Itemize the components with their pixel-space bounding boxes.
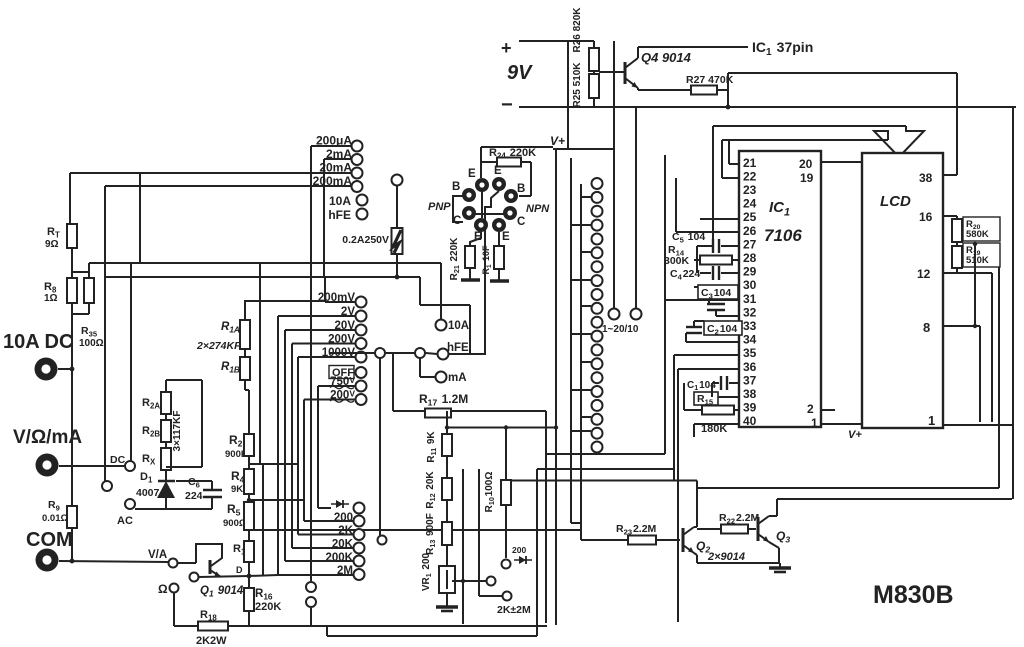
label R15 boxed bbox=[694, 392, 718, 405]
wire mesh x298 bbox=[297, 357, 299, 535]
socket pad B npn bbox=[504, 189, 518, 203]
wire V+ rail bbox=[553, 148, 614, 150]
wire pin25 bbox=[700, 218, 739, 220]
wire into LCD pin 38 bbox=[944, 174, 957, 176]
wire 2mA left bbox=[324, 158, 351, 160]
contact AC bbox=[125, 499, 135, 509]
wire 200K row bbox=[285, 560, 353, 562]
wire R4-R5 junction right bbox=[249, 499, 305, 501]
transistor Q1 9014 bbox=[210, 560, 221, 577]
resistor R21 bbox=[465, 246, 475, 268]
wire R8-R35 top join bbox=[72, 271, 89, 273]
svg-text:200K: 200K bbox=[326, 552, 354, 564]
svg-text:+: + bbox=[501, 38, 512, 58]
junction V+ column feed bbox=[554, 425, 558, 429]
wire pin26 up bbox=[675, 178, 677, 232]
junction R4-R5 bbox=[247, 498, 251, 502]
svg-text:10A: 10A bbox=[329, 194, 351, 208]
diode D1 4007 bbox=[157, 481, 175, 498]
transistor Q1 collector loop bbox=[196, 544, 222, 566]
socket pad C pnp bbox=[462, 206, 476, 220]
wire R5-R1 join bbox=[248, 530, 250, 541]
resistor R9 bbox=[67, 506, 77, 528]
contact diode range bbox=[354, 503, 365, 514]
svg-text:R10 100Ω: R10 100Ω bbox=[484, 472, 496, 513]
wire long vertical to rotor contact A bbox=[613, 41, 615, 308]
wire R35 stem bbox=[88, 263, 90, 278]
contact 2K2M bbox=[503, 592, 512, 601]
contact V/A bbox=[169, 559, 178, 568]
wire mesh x304 bbox=[303, 400, 305, 522]
wire strip second rail bbox=[580, 184, 582, 540]
wire x537 vertical bbox=[536, 469, 538, 636]
contact lower B bbox=[306, 597, 316, 607]
svg-text:C5 104: C5 104 bbox=[672, 231, 705, 244]
resistor R-10F bbox=[494, 246, 504, 269]
wire to R18 bbox=[174, 625, 198, 627]
wire pin8 row bbox=[943, 325, 980, 327]
svg-text:35: 35 bbox=[743, 346, 757, 360]
socket pad E pnp top bbox=[475, 178, 489, 192]
svg-text:C: C bbox=[517, 216, 525, 228]
svg-text:39: 39 bbox=[743, 401, 757, 415]
wire strip tick y197 bbox=[581, 196, 591, 198]
wire Q4 emitter stem bbox=[637, 88, 639, 90]
wire R15 left bbox=[684, 409, 702, 411]
svg-text:V/A: V/A bbox=[148, 549, 167, 561]
capacitor C2 bbox=[686, 327, 702, 333]
wire pin2 stub bbox=[821, 409, 835, 411]
contact 2V bbox=[356, 311, 367, 322]
wire COM to V/A bbox=[59, 561, 168, 562]
wire 2M row left bbox=[278, 574, 353, 576]
contact 20V bbox=[356, 325, 367, 336]
wire R10 top to feed line bbox=[505, 428, 507, 481]
junction R20-R19 right bbox=[973, 242, 977, 246]
wire down to R2 bbox=[248, 390, 250, 434]
label box R20 580K bbox=[963, 217, 1000, 241]
wire 20mA branch down to rail bbox=[139, 173, 141, 263]
junction fuse rail bbox=[395, 275, 400, 280]
resistor R1B bbox=[240, 357, 250, 380]
wire socket top rail to V+ bbox=[481, 146, 553, 148]
svg-text:10A: 10A bbox=[448, 320, 469, 332]
junction negative rail bbox=[726, 105, 731, 110]
wire bus outer left down to C5 row bbox=[712, 126, 714, 246]
wire long rail y469 bbox=[537, 468, 674, 470]
svg-text:200: 200 bbox=[334, 512, 353, 524]
transistor Q4 9014 bbox=[625, 47, 638, 88]
wire emitter rail to 2M mesh bbox=[249, 575, 278, 576]
wire 200uA rail down bbox=[310, 146, 312, 581]
wire R27 node vertical bbox=[727, 73, 729, 107]
svg-text:100Ω: 100Ω bbox=[79, 338, 104, 349]
svg-text:28: 28 bbox=[743, 251, 757, 265]
resistor R15 body bbox=[702, 406, 734, 415]
terminal 10A DC bbox=[35, 358, 58, 381]
wire rail down to 10A contact bbox=[440, 263, 442, 319]
junction wiper feed bbox=[461, 579, 465, 583]
wire 750V left bbox=[318, 385, 355, 387]
resistor R1 bbox=[244, 541, 254, 562]
wire pin30 stub bbox=[738, 286, 739, 288]
contact Q1 base bbox=[190, 573, 199, 582]
capacitor C1 bbox=[721, 376, 727, 390]
contact 20mA bbox=[352, 168, 363, 179]
wire Q2 collector long bbox=[697, 487, 999, 489]
svg-text:1~20/10: 1~20/10 bbox=[602, 324, 639, 335]
wire left rail mid bbox=[71, 303, 73, 506]
svg-text:hFE: hFE bbox=[447, 342, 469, 354]
svg-text:9V: 9V bbox=[507, 62, 533, 84]
svg-text:34: 34 bbox=[743, 333, 757, 347]
wire 2V left bbox=[278, 315, 355, 317]
contact 200mA bbox=[352, 181, 363, 192]
wire + down to V+ rail bbox=[567, 41, 569, 149]
wire strip tick y431 bbox=[571, 430, 591, 432]
junction 10A rail bbox=[70, 367, 75, 372]
svg-text:1Ω: 1Ω bbox=[44, 293, 58, 304]
wire contact B down bbox=[310, 608, 312, 626]
svg-text:Q4 9014: Q4 9014 bbox=[641, 50, 692, 65]
socket pad E npn bottom bbox=[492, 218, 506, 232]
wire bus outer top bbox=[713, 125, 906, 127]
wire pin16 to R20 bbox=[943, 215, 957, 217]
wire rail y277 bend down bbox=[419, 277, 421, 305]
svg-text:C4 224: C4 224 bbox=[670, 268, 700, 281]
IC1 left pin numbers 21-40 bbox=[743, 156, 757, 428]
ground main bbox=[769, 563, 791, 572]
wire R8-R35 bottom join bbox=[72, 313, 89, 315]
wire E bottom npn to R10F bbox=[498, 232, 500, 246]
wire Q3 collector bbox=[769, 515, 777, 517]
resistor R16 bbox=[244, 588, 254, 611]
svg-text:220K: 220K bbox=[255, 601, 281, 613]
contact 10A b bbox=[436, 320, 447, 331]
contact 2mA bbox=[352, 154, 363, 165]
contact 2K bbox=[354, 529, 365, 540]
wire R2B-RX join bbox=[165, 442, 167, 448]
wire Q2 collector up bbox=[696, 488, 698, 527]
capacitor C4 bbox=[713, 266, 719, 280]
resistor R17 bbox=[425, 409, 451, 418]
wire R24 left stub bbox=[481, 161, 497, 163]
socket inner wiring bbox=[474, 191, 504, 220]
svg-text:31: 31 bbox=[743, 292, 757, 306]
contact 750V bbox=[356, 381, 367, 392]
wire box right bbox=[201, 380, 203, 467]
svg-text:2×9014: 2×9014 bbox=[707, 551, 745, 563]
junction COM rail bbox=[70, 559, 75, 564]
wire Q2 collector bbox=[694, 526, 697, 528]
resistor R35 bbox=[84, 278, 94, 303]
wire pin26 bbox=[676, 231, 739, 233]
wire far right vertical to Q3 bbox=[1012, 107, 1014, 499]
wire R1B bottom bbox=[244, 380, 246, 390]
svg-text:VR1 200: VR1 200 bbox=[421, 552, 433, 591]
capacitor C5 bbox=[713, 239, 719, 253]
wire pin21 bbox=[729, 163, 739, 165]
resistor R19 bbox=[952, 246, 962, 268]
svg-text:38: 38 bbox=[743, 387, 757, 401]
ground bar below R21 bbox=[461, 278, 480, 281]
contact 200 diode bbox=[502, 560, 511, 569]
wire jog to second rail bbox=[571, 522, 581, 524]
svg-text:22: 22 bbox=[743, 169, 757, 183]
wire R14 left bbox=[694, 259, 700, 261]
wire rotor down bbox=[379, 358, 381, 536]
svg-text:M830B: M830B bbox=[873, 581, 954, 609]
wire C4 left bbox=[700, 272, 711, 274]
svg-text:R27 470K: R27 470K bbox=[686, 74, 734, 86]
wire pin22 bbox=[722, 177, 739, 179]
wire to R26 top bbox=[568, 40, 594, 42]
wire C5 left bbox=[697, 245, 713, 247]
wire long rail y480 bbox=[506, 480, 697, 482]
LCD body bbox=[862, 153, 943, 428]
wire pin36 bbox=[678, 368, 739, 370]
wire R22 to Q3 base bbox=[748, 528, 756, 530]
wire 10A terminal bbox=[58, 368, 73, 370]
wire between rotor pair bbox=[386, 352, 415, 354]
terminal COM bbox=[36, 549, 59, 572]
contact 200 bbox=[354, 516, 365, 527]
wire Q3 emitter down bbox=[778, 548, 780, 563]
wire R19 junction down bbox=[974, 244, 976, 326]
wire 200V~ left bbox=[304, 399, 355, 401]
wire to R23 bbox=[581, 539, 628, 541]
contact wiper bbox=[487, 577, 496, 586]
socket pad E pnp bottom bbox=[474, 218, 488, 232]
wire long vertical to rotor contact B bbox=[635, 107, 637, 308]
wire R35 bottom stem bbox=[88, 303, 90, 314]
label C2 104 boxed bbox=[704, 321, 742, 335]
rotor pair right bbox=[415, 348, 425, 358]
svg-text:10A DC: 10A DC bbox=[3, 331, 73, 353]
svg-text:23: 23 bbox=[743, 183, 757, 197]
wire mesh x318 bbox=[317, 386, 319, 508]
wire strip left rail bbox=[570, 158, 572, 523]
wire R20-R19 join bbox=[956, 242, 958, 246]
wire y480 jog to collector line bbox=[696, 481, 698, 489]
wire RT to R8 bbox=[71, 248, 73, 272]
wire Q4 emitter to R27 bbox=[638, 89, 691, 91]
resistor R4 bbox=[244, 469, 254, 494]
socket pad C npn bbox=[503, 206, 517, 220]
contact DC bbox=[125, 461, 135, 471]
contact hFE bbox=[357, 209, 368, 220]
wire bus inner left down to pin22 bbox=[721, 140, 723, 178]
junction Q1 emitter bbox=[247, 574, 252, 579]
wire R1A top to 200mV riser bbox=[245, 300, 325, 302]
wire pin40 bbox=[694, 423, 739, 425]
contact 200mV bbox=[356, 297, 367, 308]
resistor R12 bbox=[442, 478, 452, 500]
transistor Q3 bbox=[758, 516, 769, 542]
wire R5 junction rail right bbox=[249, 529, 581, 531]
wire strip tick y280 bbox=[571, 279, 591, 281]
wire rail to hFE drop bbox=[420, 304, 470, 306]
wire R12-R13 bbox=[446, 500, 448, 522]
wire R2A-R2B join bbox=[165, 414, 167, 420]
wire 200mV up bbox=[324, 277, 326, 302]
svg-text:1: 1 bbox=[928, 413, 935, 428]
wire D1 cathode to C6 bbox=[176, 480, 212, 482]
svg-text:R25 510K: R25 510K bbox=[572, 62, 583, 108]
svg-text:PNP: PNP bbox=[428, 201, 451, 213]
diode small near contact bbox=[514, 556, 532, 564]
wire R17 right bbox=[451, 410, 546, 412]
wire mA to rotor right bbox=[419, 358, 421, 377]
resistor R14 bbox=[700, 256, 732, 265]
wire long rail y277 bbox=[104, 276, 420, 278]
wire fuse bottom bbox=[396, 254, 398, 277]
wire emitter ground rail bbox=[697, 562, 780, 564]
svg-text:9Ω: 9Ω bbox=[45, 239, 59, 250]
wire R1A top bbox=[244, 300, 246, 320]
wire 200V left bbox=[292, 343, 355, 345]
wire mesh x278 bbox=[277, 316, 279, 575]
wire hFE contact right bbox=[449, 353, 486, 355]
wire pin40 down stub bbox=[693, 424, 695, 437]
svg-text:V+: V+ bbox=[848, 429, 862, 441]
svg-text:0.2A250V: 0.2A250V bbox=[342, 234, 389, 246]
wire Q4 collector to IC pin37 bbox=[638, 46, 748, 48]
resistor R24 bbox=[497, 158, 521, 167]
wire C2 top stem bbox=[693, 321, 695, 327]
label OFF boxed bbox=[329, 366, 354, 380]
wire C3 bottom stem bbox=[715, 310, 717, 316]
wire R8 stem bbox=[71, 272, 73, 278]
svg-text:E: E bbox=[494, 165, 502, 177]
wire bottom rail y454 bbox=[546, 453, 665, 455]
wire strip tick y417 bbox=[581, 416, 591, 418]
wire R21 bottom bbox=[469, 268, 471, 280]
wire 200 row bbox=[304, 520, 353, 522]
capacitor C6 bbox=[203, 481, 222, 509]
svg-text:0.01Ω: 0.01Ω bbox=[42, 513, 68, 524]
wire mesh x292 bbox=[291, 344, 293, 549]
IC IC1 7106 body bbox=[739, 151, 821, 427]
wire R19 bottom bbox=[956, 268, 958, 273]
wire pin38 stub bbox=[712, 396, 739, 398]
wire R2-R4 junction right bbox=[249, 463, 298, 465]
wire mesh x285 bbox=[284, 330, 286, 561]
wire bus inner bbox=[722, 139, 888, 141]
resistor R1A bbox=[240, 320, 250, 349]
resistor R5 bbox=[244, 502, 254, 530]
svg-text:NPN: NPN bbox=[526, 203, 550, 215]
contact mA b bbox=[436, 372, 447, 383]
resistor R2A bbox=[161, 392, 171, 414]
wire R1 to R16 bbox=[248, 562, 250, 588]
svg-text:E: E bbox=[468, 168, 476, 180]
wire rotor left bbox=[330, 352, 375, 354]
svg-text:B: B bbox=[517, 183, 525, 195]
wire R11-R12 bbox=[446, 456, 448, 478]
wire VR1 wiper bbox=[452, 580, 486, 582]
wire ohm contact down bbox=[173, 593, 175, 626]
wire pin21 up bbox=[728, 140, 730, 164]
wire strip outer right vertical bbox=[664, 155, 666, 454]
wire R17 left bbox=[393, 410, 425, 412]
wire R4-R5 join bbox=[248, 494, 250, 502]
wire vertical x260 bbox=[259, 263, 261, 464]
svg-text:R12 20K: R12 20K bbox=[425, 471, 437, 509]
contact 200K bbox=[354, 556, 365, 567]
wire R1A-R1B join bbox=[244, 349, 246, 357]
wire D1 anode down bbox=[165, 497, 167, 509]
wire pin30 left stub bbox=[694, 286, 698, 288]
wire bottom rail mid bbox=[228, 625, 547, 627]
socket bracket PNP bbox=[453, 196, 463, 222]
wire box top bbox=[166, 379, 202, 381]
svg-text:40: 40 bbox=[743, 414, 757, 428]
wire VR1 bottom bbox=[446, 593, 448, 602]
wire strip tick y225 bbox=[571, 224, 591, 226]
wire C1 left bbox=[712, 382, 719, 384]
contact 200V~ bbox=[356, 394, 367, 405]
svg-text:4007: 4007 bbox=[136, 487, 160, 499]
junction R10 feed bbox=[504, 425, 508, 429]
wire C1-R15 left join bbox=[683, 383, 685, 410]
svg-text:33: 33 bbox=[743, 319, 757, 333]
wire V/A to Q1 bbox=[178, 562, 196, 564]
wire negative rail bbox=[519, 106, 1016, 108]
bus arrow into LCD bbox=[874, 126, 924, 157]
socket pad B pnp bbox=[462, 188, 476, 202]
wire C3 to pin32 bbox=[716, 315, 739, 317]
wire pin12 row bbox=[943, 272, 992, 274]
wire pin1 to LCD V+ bbox=[821, 423, 862, 425]
svg-text:R17 1.2M: R17 1.2M bbox=[419, 392, 468, 408]
wire x479 feed vertical bbox=[478, 469, 480, 596]
svg-text:27: 27 bbox=[743, 237, 757, 251]
wire Q1 emitter rail bbox=[199, 576, 249, 577]
wire E bottom pnp to R21 bbox=[470, 232, 481, 246]
contact hFE b bbox=[438, 349, 449, 360]
wavy underline 200V~ bbox=[330, 400, 354, 403]
svg-text:V+: V+ bbox=[550, 134, 565, 148]
wire strip tick y252 bbox=[581, 251, 591, 253]
wire R23 to Q2 bbox=[656, 539, 680, 541]
wire 200uA left bbox=[311, 145, 351, 147]
wire Q2 to R22 bbox=[697, 528, 721, 530]
svg-text:R23 2.2M: R23 2.2M bbox=[616, 523, 657, 536]
wire C5-C4 left join bbox=[696, 246, 698, 273]
svg-text:2K2W: 2K2W bbox=[196, 635, 227, 647]
svg-text:24: 24 bbox=[743, 197, 757, 211]
wire left rail top bbox=[69, 173, 71, 224]
wire to B npn pad bbox=[519, 195, 531, 197]
resistor R20 bbox=[952, 219, 962, 242]
wire C1 to pin37 bbox=[729, 382, 739, 384]
svg-text:2K±2M: 2K±2M bbox=[497, 604, 531, 616]
contact 1000V bbox=[356, 352, 367, 363]
contact 200V bbox=[356, 338, 367, 349]
contact below rotor bbox=[378, 536, 387, 545]
resistor R22 bbox=[721, 525, 748, 534]
wire battery + top bbox=[519, 40, 568, 42]
resistor R25 bbox=[589, 74, 599, 98]
wire Q3 collector long bbox=[777, 498, 1012, 500]
wire pin12 drop vertical bbox=[991, 273, 993, 422]
wire R13-VR1 bbox=[446, 545, 448, 566]
resistor R10 bbox=[501, 480, 511, 505]
wire C2 top to label bbox=[694, 320, 704, 322]
wire pin35 down to y480 rail bbox=[673, 355, 675, 481]
svg-text:DC: DC bbox=[110, 454, 126, 466]
